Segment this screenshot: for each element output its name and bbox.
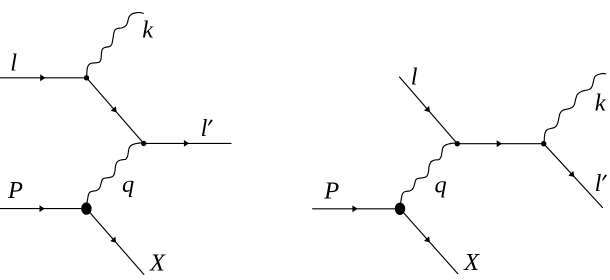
svg-text:l: l: [10, 50, 17, 77]
svg-text:q: q: [122, 171, 134, 198]
svg-text:l: l: [595, 170, 602, 197]
svg-text:q: q: [435, 172, 447, 199]
svg-text:l: l: [201, 115, 208, 142]
svg-text:k: k: [142, 17, 154, 44]
svg-text:P: P: [7, 177, 23, 204]
svg-text:X: X: [149, 250, 166, 277]
svg-text:X: X: [463, 249, 480, 276]
svg-text:l: l: [411, 64, 418, 91]
svg-text:k: k: [595, 90, 607, 117]
svg-text:P: P: [323, 178, 339, 205]
